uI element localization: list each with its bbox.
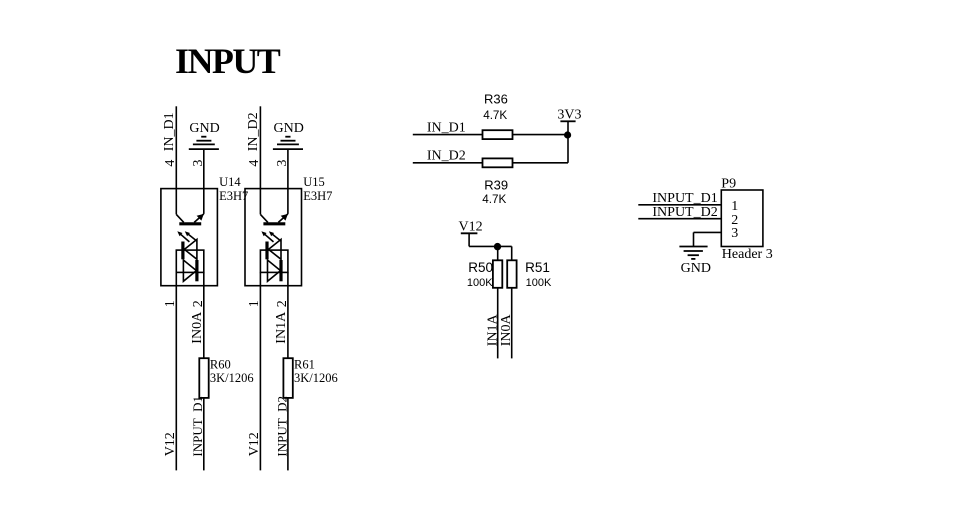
wire pin2 INPUT_D2 xyxy=(638,218,721,220)
svg-text:INPUT: INPUT xyxy=(175,41,281,81)
svg-text:U15: U15 xyxy=(303,175,325,189)
opto U15 body box xyxy=(245,189,302,286)
svg-text:Header 3: Header 3 xyxy=(722,247,773,262)
svg-text:IN_D2: IN_D2 xyxy=(427,149,466,164)
svg-text:3V3: 3V3 xyxy=(557,108,581,123)
phototransistor base bar xyxy=(263,222,285,225)
diode D-bottom triangle (points right) xyxy=(183,260,196,281)
svg-text:100K: 100K xyxy=(526,277,552,289)
phototransistor base bar xyxy=(179,222,201,225)
svg-text:IN1A: IN1A xyxy=(274,311,289,344)
wire horizontal to R51 xyxy=(469,245,512,247)
light arrow 2 xyxy=(271,233,281,241)
svg-text:R51: R51 xyxy=(525,260,550,275)
svg-text:4: 4 xyxy=(247,160,262,167)
wire pin3 from GND xyxy=(203,149,205,214)
svg-text:GND: GND xyxy=(681,261,711,276)
svg-text:1: 1 xyxy=(247,300,262,307)
svg-text:IN_D1: IN_D1 xyxy=(162,112,177,151)
svg-text:3: 3 xyxy=(191,160,206,167)
wire IN_D1 right segment xyxy=(513,134,569,136)
svg-text:IN_D1: IN_D1 xyxy=(427,120,466,135)
wire vertical 3V3 to IN_D2 xyxy=(567,122,569,163)
svg-text:INPUT_D1: INPUT_D1 xyxy=(190,396,205,457)
power symbol V12 xyxy=(461,232,478,234)
wire pin2 upper segment xyxy=(203,272,205,358)
svg-text:E3H7: E3H7 xyxy=(219,189,248,203)
svg-text:3K/1206: 3K/1206 xyxy=(294,371,338,385)
junction dot xyxy=(564,131,571,138)
svg-text:U14: U14 xyxy=(219,175,241,189)
phototransistor collector diagonal xyxy=(176,214,184,222)
svg-text:V12: V12 xyxy=(459,219,483,234)
wire pin1 vertical xyxy=(175,272,177,470)
svg-text:R50: R50 xyxy=(468,260,493,275)
resistor R51 body xyxy=(507,260,516,288)
svg-text:IN0A: IN0A xyxy=(190,311,205,344)
light arrow 2 xyxy=(187,233,197,241)
resistor R36 body xyxy=(483,130,513,139)
phototransistor emitter with arrow xyxy=(278,214,288,223)
diode D-bottom cathode bar xyxy=(195,260,198,281)
wire R50 down xyxy=(497,288,499,359)
resistor R61 body xyxy=(283,358,292,398)
opto U14 group xyxy=(161,106,254,470)
wire into R50 xyxy=(497,246,499,260)
wire pin1 vertical xyxy=(259,272,261,470)
junction dot xyxy=(494,243,501,250)
svg-text:3: 3 xyxy=(731,226,738,241)
wire pin2 lower segment xyxy=(287,398,289,471)
svg-text:GND: GND xyxy=(274,121,304,136)
wire IN_D2 left segment xyxy=(413,162,483,164)
opto U15 group xyxy=(245,106,338,470)
header P9 xyxy=(638,176,772,276)
svg-text:4.7K: 4.7K xyxy=(482,193,506,206)
svg-text:P9: P9 xyxy=(721,176,736,191)
svg-text:INPUT_D1: INPUT_D1 xyxy=(652,191,717,206)
svg-text:2: 2 xyxy=(191,300,206,307)
middle pullup network xyxy=(413,92,582,207)
svg-text:INPUT_D2: INPUT_D2 xyxy=(652,205,717,220)
svg-text:GND: GND xyxy=(189,121,219,136)
opto U14 body box xyxy=(161,189,218,286)
svg-text:100K: 100K xyxy=(467,277,493,289)
wire pin4 vertical IN_D1 xyxy=(175,106,177,214)
resistor R50 body xyxy=(493,260,502,288)
phototransistor collector diagonal xyxy=(260,214,268,222)
inner LED rectangle xyxy=(176,250,204,272)
diode D-top cathode bar xyxy=(181,242,184,260)
svg-text:R39: R39 xyxy=(484,177,508,192)
svg-text:IN_D2: IN_D2 xyxy=(246,112,261,151)
wire pin1 INPUT_D1 xyxy=(638,204,721,206)
resistor R60 body xyxy=(199,358,208,398)
phototransistor emitter with arrow xyxy=(194,214,204,223)
svg-text:R61: R61 xyxy=(294,357,315,371)
wire R51 down xyxy=(511,288,513,359)
svg-text:V12: V12 xyxy=(163,432,178,456)
wire IN_D1 left segment xyxy=(413,134,483,136)
diode D-top triangle (points left) xyxy=(184,239,197,259)
header box xyxy=(721,190,763,247)
svg-text:3: 3 xyxy=(275,160,290,167)
svg-text:INPUT_D2: INPUT_D2 xyxy=(274,396,289,457)
diode D-top triangle (points left) xyxy=(269,239,282,259)
power symbol 3V3 xyxy=(560,120,575,122)
svg-text:R60: R60 xyxy=(210,357,231,371)
ground symbol GND (P9) xyxy=(679,247,707,259)
wire pin2 lower segment xyxy=(203,398,205,471)
svg-text:4: 4 xyxy=(163,160,178,167)
inner LED rectangle xyxy=(260,250,288,272)
diode D-bottom triangle (points right) xyxy=(268,260,281,281)
svg-text:1: 1 xyxy=(163,300,178,307)
resistor R39 body xyxy=(483,158,513,167)
wire pin4 vertical IN_D2 xyxy=(259,106,261,214)
wire V12 down xyxy=(468,233,470,246)
svg-text:V12: V12 xyxy=(247,432,262,456)
svg-text:R36: R36 xyxy=(484,92,508,107)
V12 pull network xyxy=(459,219,552,358)
svg-text:E3H7: E3H7 xyxy=(303,189,332,203)
wire pin3 down to ground xyxy=(693,232,695,246)
svg-text:3K/1206: 3K/1206 xyxy=(210,371,254,385)
svg-text:4.7K: 4.7K xyxy=(483,109,507,122)
svg-text:2: 2 xyxy=(275,300,290,307)
wire pin2 upper segment xyxy=(287,272,289,358)
ground symbol GND (U14) xyxy=(189,137,219,149)
light arrow 1 xyxy=(180,233,190,242)
diode D-bottom cathode bar xyxy=(279,260,282,281)
ground symbol GND (U15) xyxy=(273,137,303,149)
svg-text:IN0A: IN0A xyxy=(499,314,514,347)
wire into R51 xyxy=(511,246,513,260)
wire pin3 horizontal xyxy=(694,231,722,233)
diode D-top cathode bar xyxy=(265,242,268,260)
svg-text:1: 1 xyxy=(731,199,738,214)
wire pin3 from GND xyxy=(287,149,289,214)
wire IN_D2 right segment xyxy=(513,162,569,164)
light arrow 1 xyxy=(264,233,274,242)
